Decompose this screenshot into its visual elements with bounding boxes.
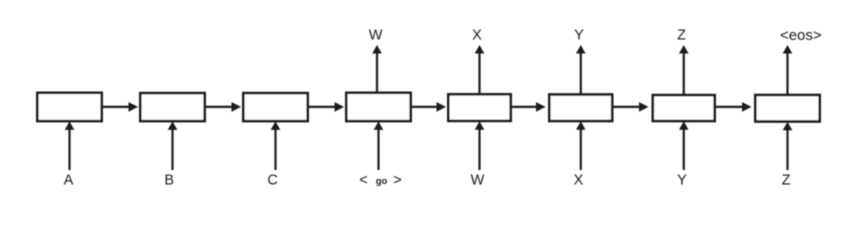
svg-text:Y: Y xyxy=(677,173,687,189)
svg-text:X: X xyxy=(574,173,584,189)
svg-text:Y: Y xyxy=(574,28,584,44)
svg-text:<eos>: <eos> xyxy=(780,27,822,44)
svg-text:A: A xyxy=(64,173,74,189)
svg-text:B: B xyxy=(164,173,174,189)
svg-text:Z: Z xyxy=(782,173,791,189)
svg-text:>: > xyxy=(393,173,401,189)
svg-text:<: < xyxy=(359,173,367,189)
svg-text:C: C xyxy=(267,173,277,189)
svg-text:W: W xyxy=(369,28,383,44)
svg-text:W: W xyxy=(471,173,485,189)
svg-text:X: X xyxy=(472,28,482,44)
svg-text:Z: Z xyxy=(677,28,686,44)
svg-text:go: go xyxy=(376,176,388,187)
